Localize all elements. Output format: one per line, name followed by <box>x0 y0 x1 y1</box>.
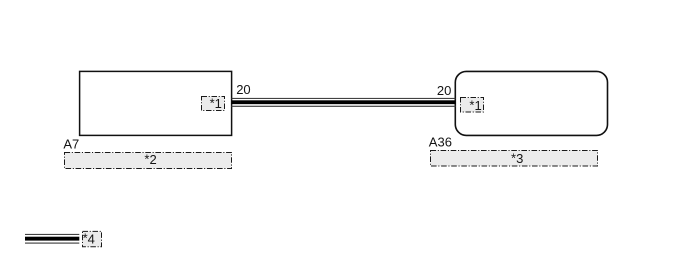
svg-text:*4: *4 <box>83 231 95 247</box>
connector A36 body <box>455 71 607 135</box>
note box *3 (under A36) <box>431 151 598 167</box>
svg-text:*1: *1 <box>210 96 222 112</box>
svg-text:*2: *2 <box>144 152 156 168</box>
svg-text:20: 20 <box>236 82 250 97</box>
legend wire sample (shielded) <box>25 234 79 244</box>
svg-text:*3: *3 <box>511 151 523 167</box>
note box *2 (under A7) <box>65 152 232 169</box>
note box *4 (legend) <box>83 231 102 247</box>
note box *1 (inside A36) <box>461 97 484 113</box>
connector A7 body <box>80 71 232 135</box>
note box *1 (inside A7) <box>202 96 225 112</box>
svg-text:A7: A7 <box>63 136 79 151</box>
svg-text:20: 20 <box>437 83 451 98</box>
svg-text:A36: A36 <box>429 134 452 149</box>
wire (shielded, A7 pin 20 to A36 pin 20) <box>232 98 456 107</box>
svg-text:*1: *1 <box>469 97 481 113</box>
